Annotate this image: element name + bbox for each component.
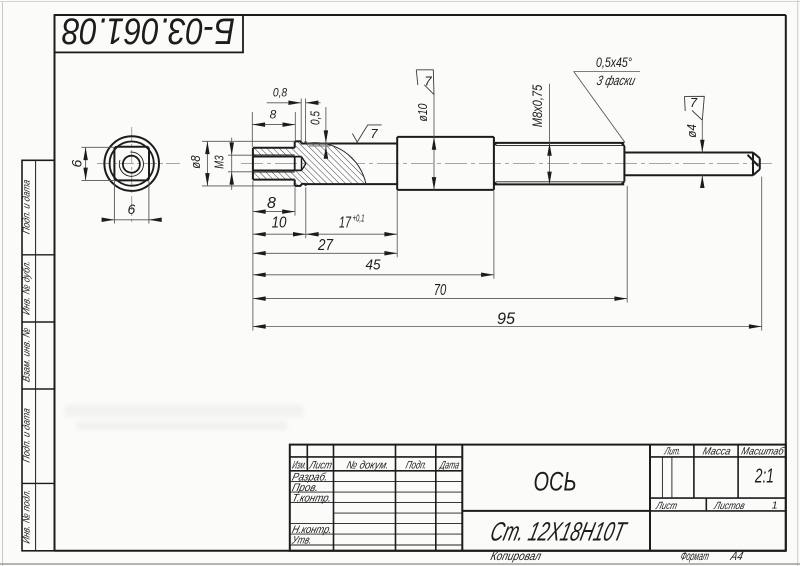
svg-text:17: 17 <box>339 215 352 232</box>
svg-text:Подп. и дата: Подп. и дата <box>22 407 33 464</box>
svg-text:0,5: 0,5 <box>309 111 323 125</box>
svg-text:6: 6 <box>128 201 136 217</box>
svg-text:Утв.: Утв. <box>290 535 313 547</box>
svg-text:Б-03.061.08: Б-03.061.08 <box>62 10 235 51</box>
svg-text:2:1: 2:1 <box>754 466 774 488</box>
svg-text:7: 7 <box>690 95 698 110</box>
svg-text:Листов: Листов <box>712 500 746 512</box>
svg-text:Подп.: Подп. <box>404 459 428 471</box>
svg-text:Т.контр.: Т.контр. <box>291 493 333 505</box>
svg-text:№ докум.: № докум. <box>345 459 390 471</box>
svg-text:Формат: Формат <box>679 549 710 563</box>
svg-text:ОСЬ: ОСЬ <box>534 466 577 496</box>
svg-text:95: 95 <box>497 309 516 328</box>
svg-text:Лист: Лист <box>307 459 333 471</box>
svg-text:ø4: ø4 <box>684 124 699 138</box>
svg-text:Изм.: Изм. <box>291 459 308 471</box>
svg-text:6: 6 <box>69 159 85 167</box>
svg-text:1: 1 <box>772 500 778 512</box>
svg-text:Лит.: Лит. <box>663 446 683 458</box>
svg-text:Дата: Дата <box>437 459 460 471</box>
svg-text:70: 70 <box>434 282 447 299</box>
svg-text:ø10: ø10 <box>416 103 430 121</box>
svg-text:7: 7 <box>424 74 432 89</box>
svg-text:10: 10 <box>272 215 287 232</box>
svg-text:7: 7 <box>370 126 378 141</box>
svg-text:3 фаски: 3 фаски <box>595 73 637 88</box>
svg-text:27: 27 <box>317 237 334 254</box>
svg-text:Ст. 12Х18Н10Т: Ст. 12Х18Н10Т <box>488 517 631 547</box>
svg-text:8: 8 <box>270 108 277 122</box>
svg-text:+0,1: +0,1 <box>353 214 365 225</box>
svg-text:Инв. № подл.: Инв. № подл. <box>22 488 33 545</box>
svg-text:Лист: Лист <box>654 500 678 512</box>
svg-text:Подп. и дата: Подп. и дата <box>22 178 33 235</box>
svg-text:Масса: Масса <box>701 446 732 458</box>
svg-text:0,5х45°: 0,5х45° <box>596 55 632 70</box>
svg-text:М3: М3 <box>213 155 227 168</box>
svg-text:0,8: 0,8 <box>273 86 288 100</box>
svg-text:Инв. № дубл.: Инв. № дубл. <box>21 259 33 316</box>
svg-text:8: 8 <box>267 195 276 212</box>
svg-text:ø8: ø8 <box>189 155 203 168</box>
svg-text:М8х0,75: М8х0,75 <box>530 84 545 127</box>
svg-text:45: 45 <box>366 257 382 274</box>
svg-text:Копировал: Копировал <box>489 549 543 563</box>
svg-text:Масштаб: Масштаб <box>740 446 786 458</box>
svg-text:Взам. инв. №: Взам. инв. № <box>22 327 33 384</box>
